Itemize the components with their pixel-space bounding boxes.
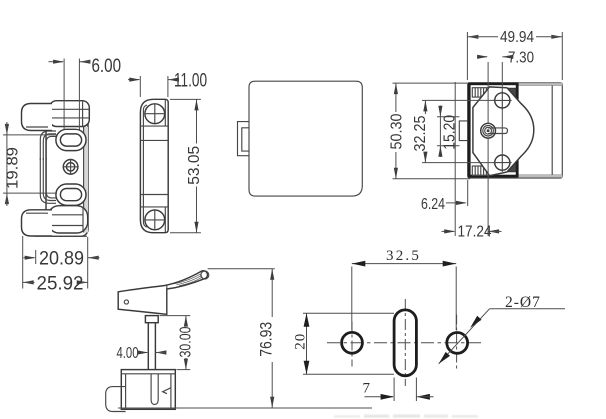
front view top slot [56, 129, 86, 150]
front view top bump [22, 104, 53, 131]
label 2-diam7 leader [439, 309, 490, 364]
svg-text:7.30: 7.30 [508, 49, 534, 66]
front view body bottom line [34, 235, 87, 237]
dimension 6.24 [467, 180, 469, 206]
dimension 11.00 [139, 76, 141, 97]
side strip bands [140, 139, 168, 141]
rubber foot [106, 387, 126, 412]
base squiggle mark [163, 388, 171, 394]
front view shaft edges / 6.00 extension lines [63, 59, 65, 132]
svg-text:20: 20 [293, 333, 309, 350]
front view right edge shaded band [84, 127, 88, 233]
latch shield plate [473, 87, 534, 176]
dimension 7 [393, 378, 395, 402]
svg-text:32.25: 32.25 [412, 115, 429, 151]
dimension 20.89 [35, 250, 37, 264]
svg-text:32.5: 32.5 [386, 248, 421, 264]
cover square [249, 81, 362, 196]
top view flange strips [517, 83, 562, 86]
side strip bottom screw [145, 210, 165, 230]
svg-text:15.20: 15.20 [441, 115, 458, 150]
svg-text:50.30: 50.30 [388, 113, 405, 149]
plate hatch bottom-right triangle [508, 162, 516, 172]
plate hatch bottom-left [472, 166, 489, 175]
bottom screw [495, 155, 510, 170]
front view fold curves bottom [40, 158, 56, 203]
lever arm inner shading curves [174, 274, 203, 286]
dimension 32.5 [351, 267, 353, 331]
top view left tab notch [459, 121, 467, 141]
front view bottom slot [56, 184, 86, 205]
svg-text:2-Ø7: 2-Ø7 [505, 294, 541, 311]
dimension 50.30 [393, 82, 468, 84]
screw centerline between screws [501, 108, 503, 153]
template horizontal centerline [327, 342, 483, 344]
side strip inner left line [143, 105, 147, 227]
pin centerline extension [487, 62, 489, 124]
lever tip top line / 76.93 top extension [208, 268, 275, 270]
front view top block [50, 101, 90, 127]
side strip top screw seat [140, 125, 168, 127]
top view body [468, 83, 563, 178]
dimension 19.89 [3, 134, 57, 136]
top view mounting plate [469, 84, 517, 176]
plate hatch top-right triangle [508, 88, 516, 98]
dimension 15.20 [437, 116, 460, 118]
svg-text:11.00: 11.00 [174, 71, 207, 92]
front view main body [46, 104, 88, 236]
svg-text:76.93: 76.93 [258, 322, 276, 357]
dimension 25.92 [23, 280, 34, 284]
svg-text:20.89: 20.89 [39, 249, 84, 270]
lever plate separation line [166, 285, 168, 314]
front view bottom bump [22, 210, 53, 236]
ground / bottom extension line [118, 407, 372, 409]
cover left tab [238, 122, 250, 156]
top screw [495, 93, 510, 108]
stem [147, 323, 149, 370]
svg-text:17.24: 17.24 [458, 224, 492, 241]
faint bottom watermark [334, 414, 478, 417]
left hole vertical centerline [351, 322, 353, 367]
dimension 49.94 [466, 32, 468, 80]
svg-text:53.05: 53.05 [186, 146, 203, 185]
middle slot [394, 310, 416, 376]
svg-text:19.89: 19.89 [5, 147, 22, 189]
dimension 6.00 [49, 61, 64, 63]
slot vertical centerline [404, 299, 406, 386]
shield keyhole slot [488, 128, 507, 134]
base pin inside [151, 374, 158, 405]
top view flange inner edge [551, 85, 553, 174]
lever arm outline [118, 271, 207, 315]
side strip body [140, 99, 168, 232]
side strip bottom screw seat [164, 207, 166, 232]
dimension 7.30 [501, 62, 503, 92]
svg-text:25.92: 25.92 [37, 274, 84, 295]
right hole [447, 333, 468, 354]
lever tip datum line [454, 82, 456, 236]
dimension 76.93 [271, 269, 273, 317]
lever plate hole [124, 300, 128, 304]
svg-text:4.00: 4.00 [117, 345, 139, 362]
front view fold curves top [40, 131, 56, 160]
plate hatch top-left [472, 88, 489, 97]
dimension 17.24 [442, 230, 455, 232]
svg-text:6.00: 6.00 [92, 56, 122, 77]
side strip top screw [145, 104, 165, 124]
central pin [481, 123, 496, 138]
right hole vertical centerline [456, 315, 458, 372]
base block [121, 370, 175, 410]
front view bottom arm end piece [48, 206, 88, 233]
svg-text:49.94: 49.94 [500, 29, 534, 46]
svg-text:7: 7 [363, 381, 371, 397]
svg-text:6.24: 6.24 [421, 196, 445, 213]
dimension 20 [303, 312, 394, 314]
dimension 32.25 [422, 99, 496, 101]
dimension 30.00 [160, 315, 191, 317]
svg-text:30.00: 30.00 [178, 326, 195, 357]
stem collar [145, 316, 158, 323]
dimension 53.05 [170, 98, 201, 100]
front view screw [63, 160, 78, 175]
lever tip rolled hook [201, 271, 209, 279]
left hole [342, 332, 363, 353]
